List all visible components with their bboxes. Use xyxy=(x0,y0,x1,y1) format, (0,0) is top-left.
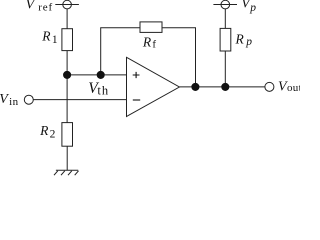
svg-text:V: V xyxy=(0,92,9,107)
svg-text:2: 2 xyxy=(50,128,56,140)
svg-text:p: p xyxy=(245,36,252,48)
svg-text:R: R xyxy=(39,123,49,138)
svg-text:f: f xyxy=(152,39,156,51)
svg-text:R: R xyxy=(235,32,245,47)
svg-text:V: V xyxy=(26,0,36,13)
svg-text:R: R xyxy=(41,29,51,44)
svg-text:ref: ref xyxy=(38,2,53,14)
svg-text:th: th xyxy=(97,84,109,98)
svg-text:R: R xyxy=(142,35,152,50)
svg-text:1: 1 xyxy=(52,34,58,46)
svg-text:p: p xyxy=(249,2,256,14)
svg-text:in: in xyxy=(9,96,19,108)
svg-text:out: out xyxy=(287,82,300,94)
